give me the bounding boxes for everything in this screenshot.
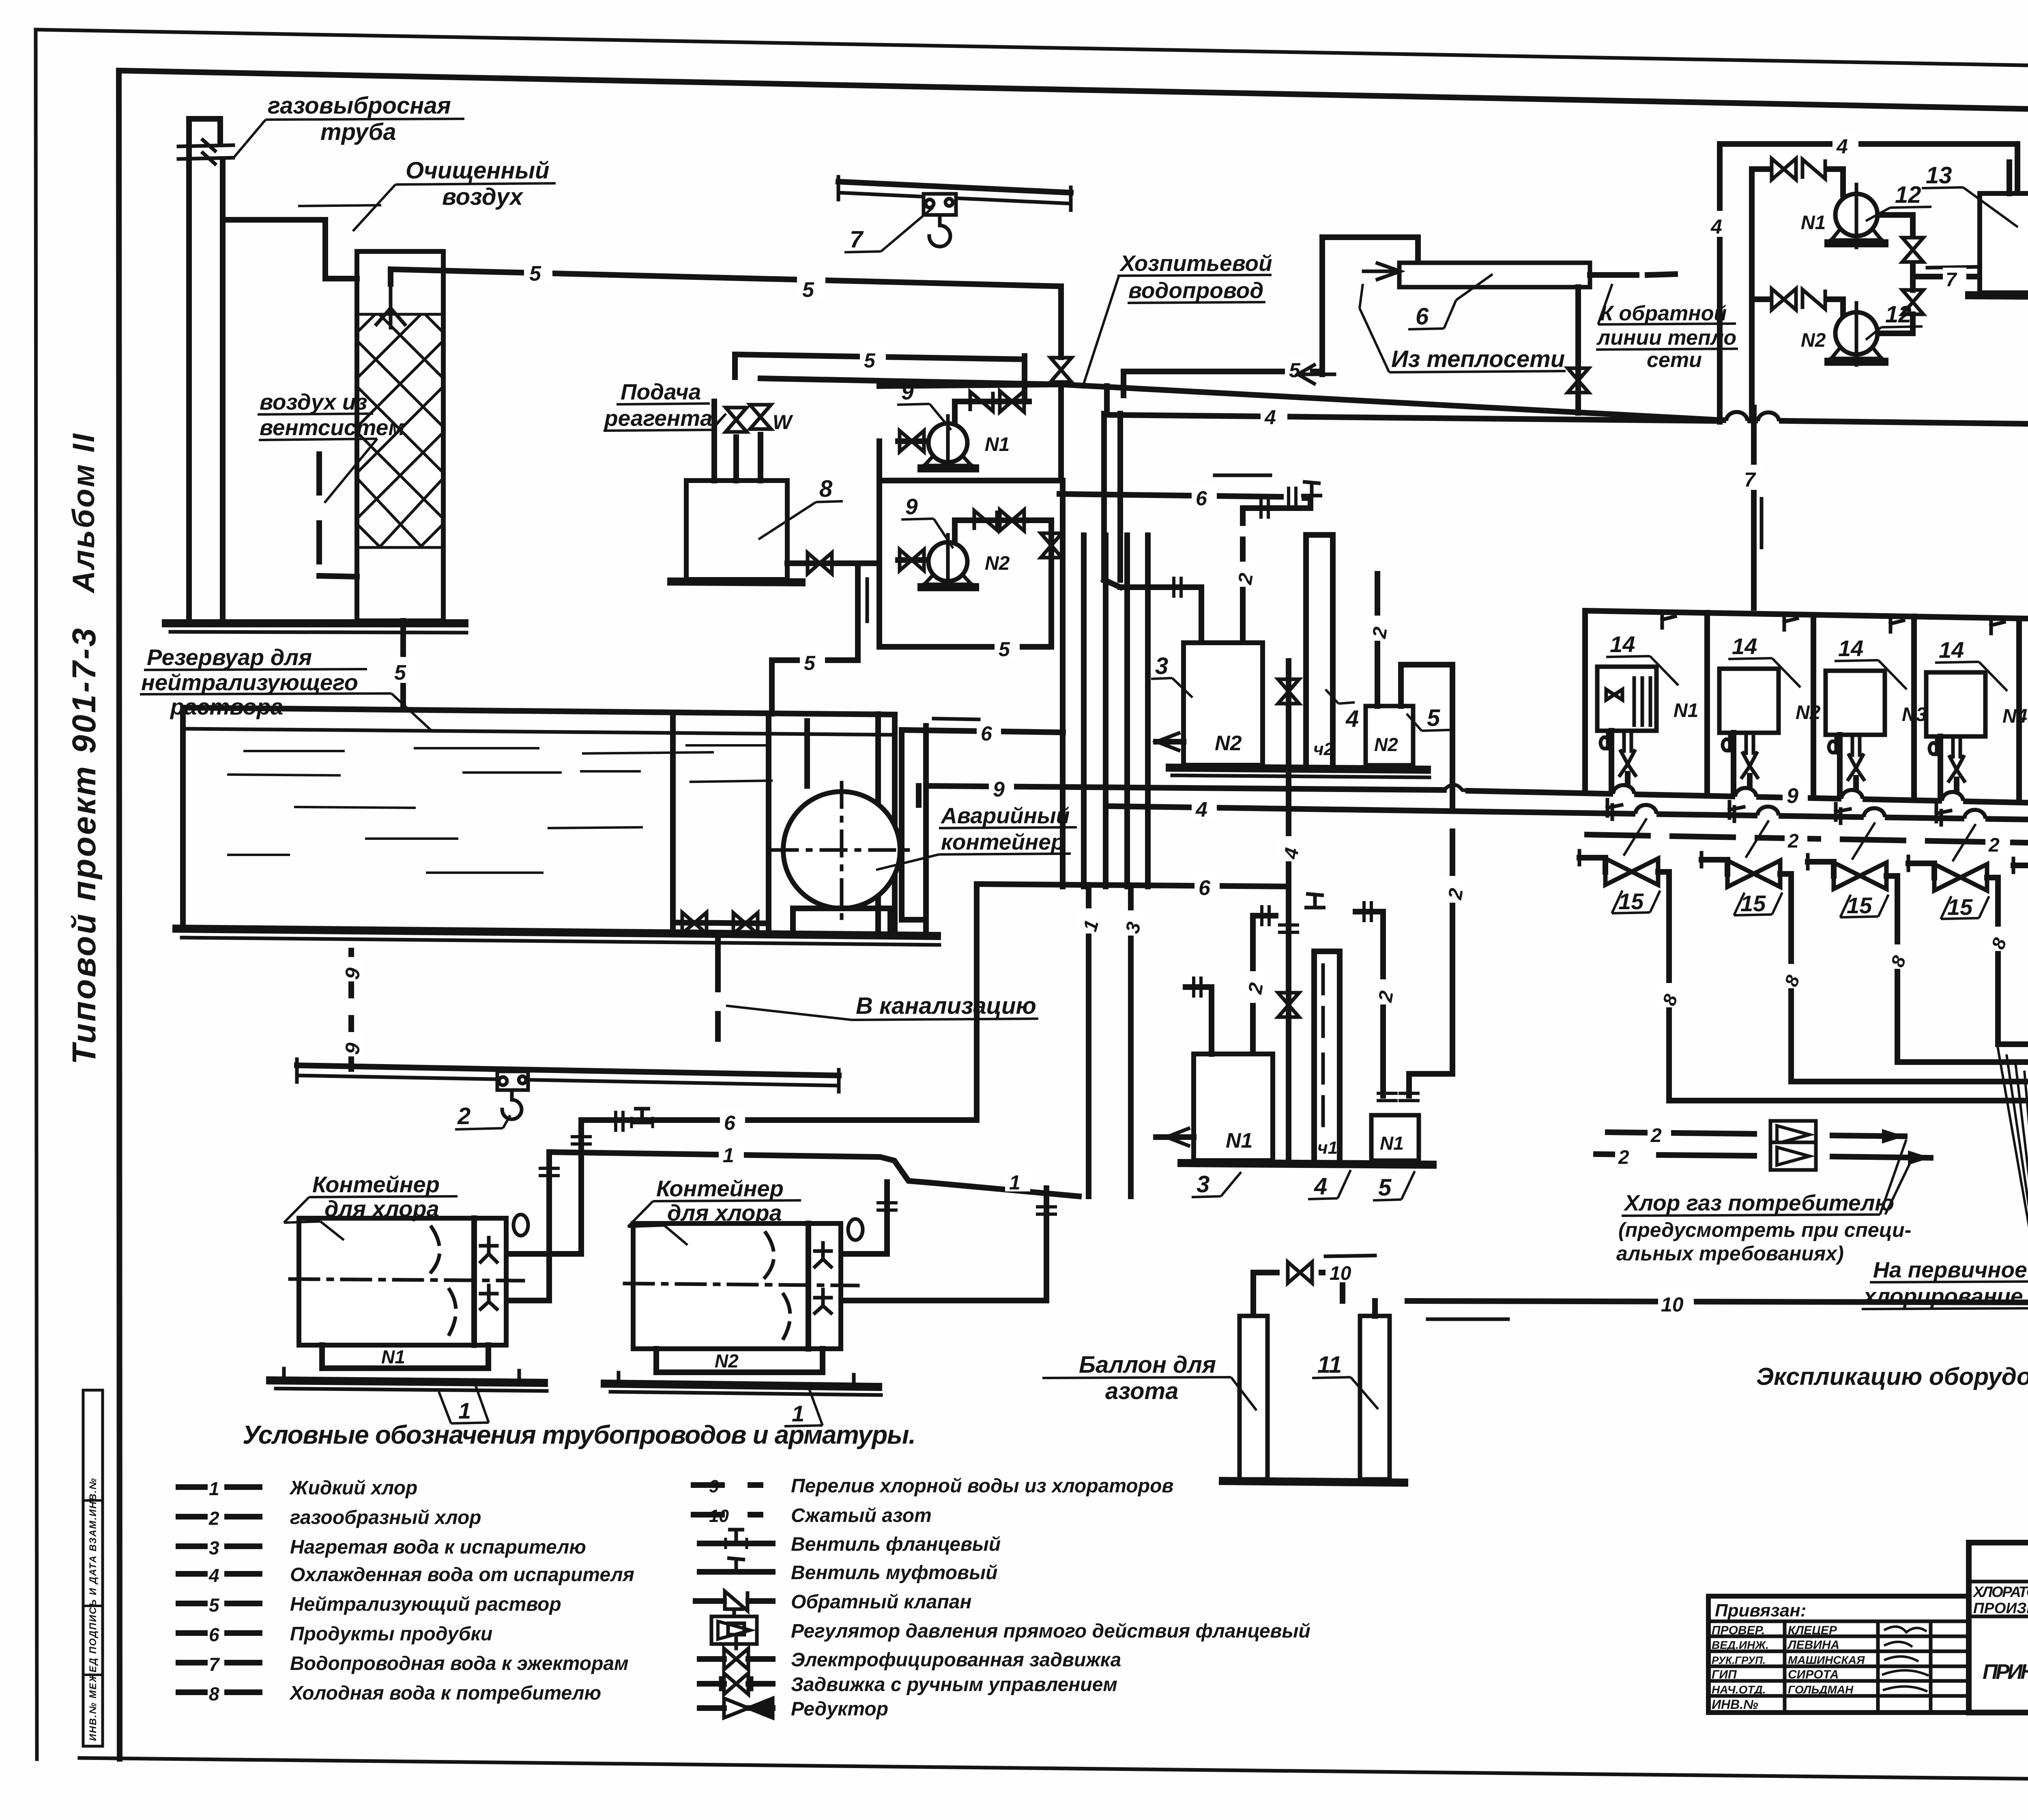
bay top flag N4	[1991, 619, 2004, 633]
vent duct (dashed) into scrubber bottom	[319, 454, 357, 577]
scrubber drain pipe 5 down to reservoir	[400, 621, 406, 708]
svg-text:2: 2	[1650, 1125, 1662, 1146]
svg-text:контейнер: контейнер	[941, 829, 1064, 854]
svg-text:9: 9	[1787, 784, 1798, 808]
svg-text:Хлор газ потребителю: Хлор газ потребителю	[1623, 1190, 1894, 1215]
chlorinator 14 N2	[1719, 669, 1821, 733]
reagent feed risers into tank 8	[714, 401, 760, 481]
svg-text:4: 4	[1195, 798, 1207, 822]
container N1 riser (line 6)	[506, 1120, 581, 1254]
svg-text:Вентиль муфтовый: Вентиль муфтовый	[791, 1562, 997, 1584]
svg-text:труба: труба	[320, 119, 396, 145]
svg-text:2: 2	[457, 1103, 470, 1129]
svg-text:линии тепло: линии тепло	[1596, 326, 1736, 350]
chlorinator 14 N4	[1926, 672, 2027, 736]
svg-text:1: 1	[723, 1144, 734, 1167]
cylinders base	[1223, 1481, 1404, 1483]
svg-text:N2: N2	[1374, 734, 1398, 755]
svg-text:2: 2	[1618, 1147, 1629, 1168]
unit pipe to header N1	[1609, 731, 1614, 791]
svg-text:12: 12	[1895, 182, 1921, 208]
svg-text:ВЕД.ИНЖ.: ВЕД.ИНЖ.	[1712, 1639, 1769, 1651]
svg-text:N2: N2	[715, 1350, 739, 1371]
scrubber / stack foundation	[166, 619, 464, 627]
svg-text:N1: N1	[1674, 700, 1698, 721]
evaporator 3 N1	[1194, 1054, 1273, 1161]
svg-text:7: 7	[850, 226, 864, 253]
legend item 1	[178, 1484, 260, 1490]
svg-text:3: 3	[1155, 653, 1168, 679]
svg-text:7: 7	[1744, 468, 1756, 491]
evaporator N2 base	[1170, 768, 1427, 770]
svg-text:9: 9	[709, 1477, 719, 1496]
node 5 label	[524, 260, 552, 285]
pumps 12 suction header	[1749, 169, 1755, 420]
flange pair above N1 aux box	[1377, 1093, 1398, 1101]
svg-text:5: 5	[802, 278, 814, 302]
crane hook	[929, 215, 950, 247]
svg-text:4: 4	[208, 1565, 219, 1586]
svg-text:N1: N1	[1380, 1133, 1404, 1154]
svg-text:ч2: ч2	[1313, 739, 1334, 759]
emergency container (аварийный контейнер)	[783, 792, 900, 908]
pump suction manifold	[877, 441, 882, 647]
stack break marks	[178, 140, 233, 164]
ejector N4	[1949, 736, 1964, 781]
pump N2 discharge with check valve	[955, 520, 1029, 542]
vertical web from main line down	[879, 386, 1061, 481]
svg-text:Редуктор: Редуктор	[791, 1698, 888, 1720]
container pedestal	[793, 908, 890, 931]
svg-text:7: 7	[209, 1654, 220, 1675]
left strip column (bottom)	[83, 1390, 103, 1746]
header 9	[926, 786, 2028, 807]
svg-text:ЛЕВИНА: ЛЕВИНА	[1787, 1638, 1839, 1652]
feed valve W	[750, 405, 771, 429]
svg-text:14: 14	[1939, 637, 1964, 663]
svg-text:6: 6	[1416, 303, 1429, 330]
reservoir for neutralizing solution	[183, 708, 895, 933]
line 5 to reservoir	[772, 564, 858, 714]
svg-text:3: 3	[1197, 1171, 1209, 1198]
svg-text:Альбом II: Альбом II	[67, 432, 101, 594]
nitrogen line 10	[1407, 1301, 2028, 1303]
svg-text:7: 7	[1946, 269, 1957, 291]
box 5 N1	[1371, 1115, 1419, 1161]
chlorine gas line 2 upper with regulator	[1608, 1132, 1905, 1136]
pump 9 N2	[898, 535, 1010, 589]
container N1 base	[270, 1380, 544, 1383]
svg-text:Сжатый азот: Сжатый азот	[791, 1505, 932, 1526]
overflow line 9 drop	[348, 951, 354, 1069]
line 8 from valve 15 N2	[1780, 874, 2028, 1082]
svg-text:14: 14	[1838, 635, 1863, 661]
discharge column with valve to line 5	[879, 520, 1051, 647]
svg-text:Экспликацию оборудования см.: Экспликацию оборудования см. лист Нк-4.	[1756, 1363, 2028, 1390]
svg-text:1: 1	[458, 1398, 471, 1423]
svg-text:N2: N2	[1801, 330, 1826, 351]
svg-text:НАЧ.ОТД.: НАЧ.ОТД.	[1712, 1683, 1766, 1696]
neutralizing solution pipe 5 to scrubber top	[391, 269, 1061, 286]
legend item 9	[694, 1482, 760, 1488]
water tap flange N2	[1729, 802, 1744, 821]
svg-text:Задвижка с ручным управлением: Задвижка с ручным управлением	[791, 1674, 1117, 1696]
sample column W1	[1314, 951, 1340, 1165]
water tap flange N4	[1936, 805, 1951, 825]
svg-text:N1: N1	[985, 434, 1010, 455]
water streak marks	[227, 745, 773, 873]
svg-text:воздух: воздух	[442, 184, 524, 210]
crane beam 7	[838, 182, 1071, 193]
bay top flag N1	[1662, 613, 1675, 628]
nitrogen cylinder left	[1240, 1316, 1267, 1479]
svg-text:Типовой проект 901-7-3: Типовой проект 901-7-3	[66, 627, 103, 1065]
ejector N1	[1620, 731, 1635, 775]
svg-text:5: 5	[999, 638, 1010, 661]
line 8 from valve 15 N3	[1886, 876, 2028, 1062]
svg-text:Подача: Подача	[621, 379, 701, 404]
nitrogen cylinder right (11)	[1360, 1316, 1390, 1479]
svg-text:5: 5	[804, 652, 816, 674]
svg-text:воздух из: воздух из	[260, 389, 367, 414]
line 6 shutoff valve	[632, 1109, 653, 1128]
svg-text:14: 14	[1732, 633, 1757, 659]
svg-text:10: 10	[1661, 1293, 1684, 1316]
svg-text:На первичное: На первичное	[1873, 1257, 2027, 1282]
svg-text:К обратной: К обратной	[1600, 302, 1727, 325]
valve 15 N2	[1701, 860, 1727, 874]
feed valve	[726, 408, 747, 432]
line 4 top loop	[1720, 144, 2017, 193]
svg-text:4: 4	[1314, 1173, 1327, 1200]
dashed gas line 2	[1587, 835, 2028, 846]
svg-text:N1: N1	[381, 1346, 405, 1367]
water level line	[183, 729, 895, 735]
unit pipe to header N3	[1837, 735, 1843, 795]
attachment table (Привязан)	[1708, 1596, 1969, 1713]
header 4 lower	[1110, 806, 2028, 822]
legend item RG	[711, 1616, 757, 1644]
svg-text:Хозпитьевой: Хозпитьевой	[1119, 251, 1272, 276]
bay top flag N2	[1784, 615, 1797, 630]
outlet valve	[808, 553, 832, 574]
svg-text:3: 3	[209, 1537, 219, 1558]
svg-text:Из теплосети: Из теплосети	[1391, 346, 1565, 372]
svg-text:азота: азота	[1105, 1378, 1178, 1404]
scrubber packing (cross-hatch)	[357, 314, 443, 547]
svg-text:6: 6	[1199, 876, 1211, 900]
callout fan to Na pervichnoe	[1998, 1046, 2028, 1279]
svg-text:газовыбросная: газовыбросная	[268, 92, 451, 119]
svg-text:альных требованиях): альных требованиях)	[1616, 1242, 1844, 1265]
svg-text:N2: N2	[1215, 732, 1242, 755]
svg-text:Регулятор давления прямого дей: Регулятор давления прямого действия флан…	[791, 1620, 1310, 1642]
evaporator N1 base	[1182, 1163, 1433, 1165]
svg-text:6: 6	[1196, 487, 1207, 510]
svg-text:Водопроводная вода к эжекторам: Водопроводная вода к эжекторам	[290, 1653, 629, 1674]
pump 12 N1	[1752, 159, 1884, 247]
svg-text:14: 14	[1610, 631, 1635, 657]
svg-text:сети: сети	[1647, 348, 1702, 372]
tank 8 outlet to pumps	[787, 560, 879, 566]
svg-text:5: 5	[864, 349, 876, 372]
svg-text:реагента: реагента	[604, 406, 713, 431]
svg-text:4: 4	[1345, 706, 1359, 732]
svg-text:Контейнер: Контейнер	[312, 1172, 440, 1197]
svg-text:N1: N1	[1226, 1129, 1252, 1153]
svg-text:ПРОИЗВОДИТЕЛЬНОСТЬЮ 12.5КГ ТОВ: ПРОИЗВОДИТЕЛЬНОСТЬЮ 12.5КГ ТОВАРНОГО ХЛО…	[1973, 1600, 2028, 1616]
svg-text:ИНВ.№: ИНВ.№	[1712, 1697, 1758, 1712]
heat supply riser	[1322, 237, 1418, 374]
blow-off line 6 from emergency pit	[902, 730, 1063, 732]
main drinking-water line	[879, 384, 2028, 427]
svg-text:МАШИНСКАЯ: МАШИНСКАЯ	[1788, 1654, 1865, 1666]
gas exhaust stack (газовыбросная труба)	[189, 119, 223, 621]
tank 13 (water tank)	[1980, 193, 2028, 293]
tank 8 (reagent tank)	[686, 481, 787, 579]
line 8 from valve 15 N4	[1987, 878, 2028, 1044]
svg-text:Резервуар для: Резервуар для	[147, 644, 312, 670]
svg-text:9: 9	[993, 778, 1005, 801]
pump 12 N2	[1752, 289, 1884, 365]
svg-text:5: 5	[1427, 705, 1440, 731]
svg-text:5: 5	[209, 1595, 220, 1616]
legend item EZ	[700, 1656, 773, 1662]
pipe 2 into box 5 N2	[1375, 574, 1380, 706]
crane trolley	[924, 194, 956, 215]
blow-off line 6 to containers	[581, 886, 977, 1120]
scrubber shell	[357, 251, 443, 621]
svg-text:5: 5	[529, 262, 541, 285]
svg-text:Аварийный: Аварийный	[940, 803, 1070, 828]
unit pipe to header N4	[1938, 736, 1943, 796]
pit loop piping	[902, 730, 926, 920]
svg-text:Привязан:: Привязан:	[1715, 1601, 1806, 1620]
water tap flange N3	[1836, 804, 1850, 823]
legend item 3	[178, 1543, 260, 1549]
svg-text:РУК.ГРУП.: РУК.ГРУП.	[1712, 1654, 1766, 1666]
legend item OK	[696, 1598, 773, 1604]
legend item 4	[178, 1571, 260, 1577]
riser with valve (N2)	[1286, 661, 1291, 768]
branch 2 left down to evap N1	[1250, 916, 1256, 1054]
svg-text:водопровод: водопровод	[1128, 278, 1263, 303]
spray nozzle	[376, 284, 405, 328]
chlorinator battery enclosure	[1585, 611, 2028, 622]
liquid chlorine line 1	[549, 1152, 1089, 1196]
pipes 1 and 3 down-columns	[1084, 535, 1148, 886]
svg-text:8: 8	[209, 1683, 219, 1704]
svg-text:для хлора: для хлора	[324, 1196, 439, 1221]
chlorine gas line 2 lower with regulator	[1596, 1154, 1931, 1158]
unit pipe to header N2	[1731, 733, 1736, 793]
svg-text:1: 1	[209, 1478, 219, 1499]
legend item ZR	[700, 1681, 773, 1687]
svg-text:ГИП: ГИП	[1712, 1668, 1737, 1681]
line 6 low	[977, 884, 1289, 886]
svg-text:6: 6	[209, 1624, 219, 1645]
legend item VM	[700, 1569, 773, 1575]
container N2 riser (line 1 branch)	[841, 1188, 1046, 1301]
svg-text:ГОЛЬДМАН: ГОЛЬДМАН	[1788, 1683, 1854, 1696]
legend item 10	[694, 1512, 760, 1517]
svg-text:6: 6	[981, 722, 993, 745]
duct stack to scrubber	[223, 220, 357, 279]
discharge header loop 5	[735, 354, 1051, 520]
container N1 pedestal	[322, 1345, 488, 1368]
svg-text:Нейтрализующий раствор: Нейтрализующий раствор	[290, 1594, 561, 1615]
svg-text:КЛЕЦЕР: КЛЕЦЕР	[1788, 1624, 1837, 1637]
evaporator N2 discharge arrow	[1156, 739, 1184, 745]
line 4 riser to junction	[1286, 770, 1291, 886]
svg-text:Контейнер: Контейнер	[656, 1176, 784, 1201]
legend item RD	[700, 1705, 773, 1711]
container N1 riser (line 1)	[506, 1152, 549, 1301]
line 8 from valve 15 N1	[1658, 872, 2028, 1101]
hook	[502, 1090, 522, 1119]
loop from box5 N2 to line 2	[1401, 665, 1452, 1096]
water tap flange N1	[1607, 800, 1622, 819]
branch right with flange to W1 column	[1356, 912, 1383, 1096]
gate valve	[733, 913, 758, 934]
svg-text:2: 2	[1988, 835, 2000, 856]
chlorinator 14 N1	[1597, 667, 1698, 731]
svg-text:В канализацию: В канализацию	[856, 993, 1036, 1019]
svg-text:11: 11	[1317, 1352, 1342, 1378]
svg-text:для хлора: для хлора	[667, 1200, 782, 1225]
svg-text:13: 13	[1926, 162, 1952, 189]
svg-text:W: W	[773, 411, 793, 434]
legend item 2	[178, 1514, 260, 1520]
svg-text:N2: N2	[985, 553, 1010, 574]
svg-text:4: 4	[1710, 215, 1722, 238]
legend item 5	[178, 1601, 260, 1606]
svg-text:N3: N3	[1902, 704, 1927, 725]
chlorine container N1	[290, 1218, 523, 1345]
svg-text:5: 5	[1289, 359, 1301, 382]
svg-text:Условные обозначения трубопров: Условные обозначения трубопроводов и арм…	[243, 1420, 916, 1449]
reservoir bottom / floor	[176, 929, 937, 936]
svg-text:вентсистем: вентсистем	[260, 415, 405, 440]
legend item VF	[700, 1541, 773, 1546]
line 1 elbow into evaporator N1	[1186, 987, 1212, 1054]
sheet bottom edge	[79, 1758, 2028, 1784]
heat exchanger outlet	[1590, 274, 1675, 275]
svg-text:ПРОВЕР.: ПРОВЕР.	[1712, 1624, 1765, 1637]
bay top flag N3	[1891, 617, 1903, 632]
box 5 N2	[1366, 706, 1413, 765]
pump 9 N1	[898, 416, 1010, 470]
ejector N3	[1848, 735, 1864, 779]
svg-text:N4: N4	[2002, 706, 2027, 727]
container N2 pedestal	[656, 1349, 823, 1372]
legend item 8	[178, 1689, 260, 1695]
valve 15 N4	[1908, 863, 1934, 878]
line 7 to tank 13	[1913, 274, 1980, 279]
svg-text:ч1: ч1	[1317, 1138, 1338, 1158]
svg-text:Перелив хлорной воды из хлорат: Перелив хлорной воды из хлораторов	[791, 1475, 1173, 1497]
svg-text:Холодная вода к потребителю: Холодная вода к потребителю	[289, 1683, 601, 1704]
svg-text:8: 8	[819, 476, 833, 502]
jogs on drinking water main at riser crossings	[1726, 412, 1747, 424]
valve 15 N1	[1579, 858, 1605, 872]
svg-text:10: 10	[709, 1506, 729, 1526]
line 4 horizontal	[1107, 386, 1720, 421]
reservoir drain valves	[673, 923, 769, 923]
svg-text:10: 10	[1330, 1263, 1351, 1284]
title block	[1969, 1543, 2028, 1713]
ejector water line 7	[1751, 408, 1757, 608]
svg-text:2: 2	[1787, 831, 1799, 852]
svg-text:Жидкий хлор: Жидкий хлор	[289, 1477, 417, 1499]
container N2 riser (line 6 branch)	[841, 1182, 887, 1254]
line 6 mid	[1059, 494, 1310, 643]
line 5 from scrubber into riser	[760, 286, 1061, 384]
svg-text:ХЛОРАТОРНАЯ ДЛЯ ОБЕЗЗАРАЖИВАНИ: ХЛОРАТОРНАЯ ДЛЯ ОБЕЗЗАРАЖИВАНИЯ ПИТЬЕВЫХ…	[1972, 1584, 2028, 1600]
svg-text:Нагретая вода к испарителю: Нагретая вода к испарителю	[290, 1537, 586, 1558]
line 9 left hook	[916, 786, 922, 805]
chlorinator 14 N3	[1826, 671, 1927, 735]
svg-text:СИРОТА: СИРОТА	[1788, 1668, 1839, 1681]
svg-text:6: 6	[724, 1112, 736, 1134]
pipe 5 right segment	[1124, 371, 1322, 395]
svg-text:нейтрализующего: нейтрализующего	[141, 670, 358, 695]
riser valve (electro gate)	[1051, 358, 1072, 382]
pump discharge column	[1878, 215, 1913, 333]
valve 15 N3	[1808, 862, 1834, 876]
svg-text:Вентиль фланцевый: Вентиль фланцевый	[791, 1534, 1001, 1555]
svg-text:ИНВ.№ МЕЖЕД ПОДПИСЬ И ДАТА ВЗА: ИНВ.№ МЕЖЕД ПОДПИСЬ И ДАТА ВЗАМ.ИНВ.№	[88, 1477, 99, 1741]
svg-text:ПРИНЦИПИАЛЬНАЯ СХЕМА: ПРИНЦИПИАЛЬНАЯ СХЕМА	[1983, 1660, 2028, 1684]
emergency container pit walls	[769, 714, 926, 933]
svg-text:5: 5	[1378, 1174, 1392, 1201]
svg-text:Обратный клапан: Обратный клапан	[791, 1591, 971, 1613]
nitrogen bottle valve 10	[1253, 1273, 1343, 1316]
svg-text:Охлажденная вода от испарителя: Охлажденная вода от испарителя	[290, 1564, 634, 1586]
hose jogs on overflow header 9	[1613, 785, 1634, 797]
gate valve	[682, 912, 707, 934]
svg-text:9: 9	[905, 494, 918, 519]
legend item 7	[178, 1660, 260, 1665]
svg-text:Баллон для: Баллон для	[1079, 1352, 1216, 1378]
sample column 4 N2	[1306, 535, 1333, 765]
svg-text:2: 2	[208, 1508, 219, 1529]
hose jogs on water header	[1635, 805, 1656, 817]
svg-text:Электрофицированная задвижка: Электрофицированная задвижка	[791, 1649, 1121, 1671]
junction down with flanges and valve	[1286, 886, 1291, 1161]
svg-text:4: 4	[1836, 135, 1848, 158]
svg-text:Очищенный: Очищенный	[406, 157, 549, 184]
svg-text:5: 5	[394, 661, 406, 685]
chlorine container N2	[625, 1223, 858, 1349]
monorail beam with hoist	[297, 1065, 839, 1075]
svg-text:(предусмотреть при специ-: (предусмотреть при специ-	[1618, 1219, 1911, 1241]
line 4 riser	[1717, 144, 1723, 422]
lifting lugs	[513, 1215, 863, 1240]
container N2 base	[605, 1384, 878, 1387]
legend item 6	[178, 1630, 260, 1636]
svg-text:N2: N2	[1796, 702, 1821, 723]
hoist trolley	[497, 1071, 528, 1090]
svg-text:газообразный хлор: газообразный хлор	[290, 1507, 481, 1528]
drain to sewer	[715, 936, 721, 1039]
ejector N2	[1742, 733, 1757, 777]
pump N1 discharge with check valve	[955, 401, 1029, 423]
svg-text:4: 4	[1264, 406, 1276, 429]
valve 15 N5	[2013, 865, 2028, 880]
tank 13 top stubs	[2009, 146, 2028, 193]
svg-text:Продукты продубки: Продукты продубки	[290, 1623, 492, 1645]
